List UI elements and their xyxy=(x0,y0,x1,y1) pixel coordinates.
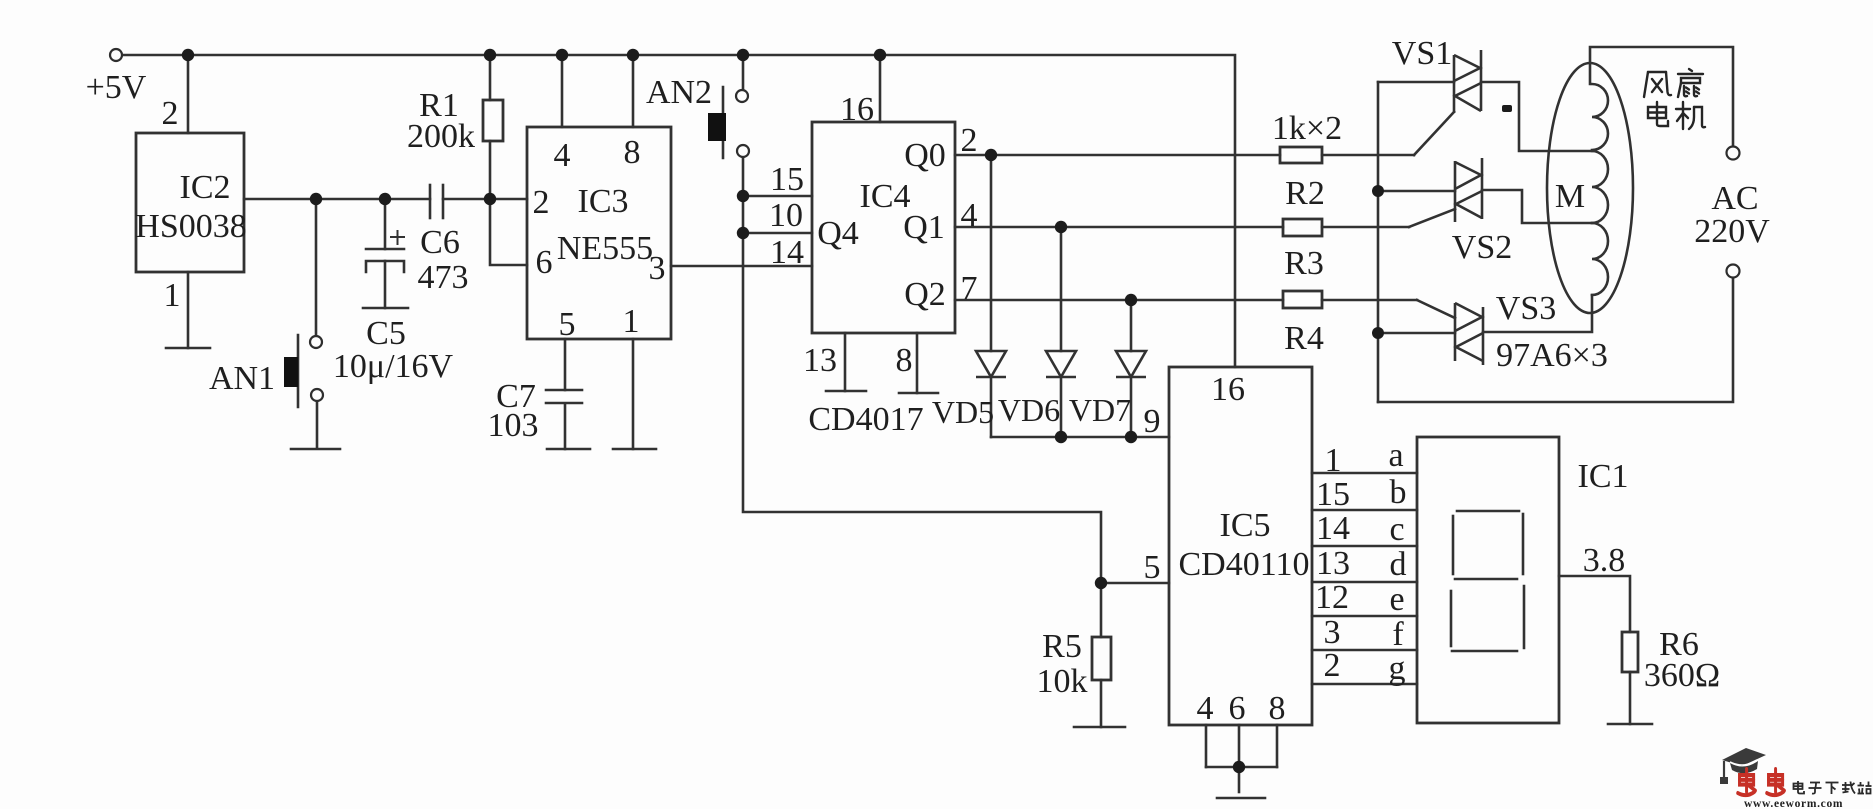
svg-text:8: 8 xyxy=(624,134,641,171)
svg-text:15: 15 xyxy=(1316,476,1350,513)
svg-text:VS1: VS1 xyxy=(1392,35,1452,72)
svg-text:15: 15 xyxy=(770,161,804,198)
svg-text:R5: R5 xyxy=(1042,628,1082,665)
svg-text:g: g xyxy=(1389,650,1406,687)
svg-text:R3: R3 xyxy=(1284,245,1324,282)
svg-text:Q1: Q1 xyxy=(903,209,945,246)
svg-text:3.8: 3.8 xyxy=(1583,542,1626,579)
svg-text:360Ω: 360Ω xyxy=(1644,657,1720,694)
svg-text:220V: 220V xyxy=(1694,213,1770,250)
svg-text:M: M xyxy=(1555,178,1585,215)
svg-text:4: 4 xyxy=(1197,690,1214,727)
svg-text:7: 7 xyxy=(961,270,978,307)
svg-text:103: 103 xyxy=(488,407,539,444)
svg-text:VD7: VD7 xyxy=(1069,392,1131,428)
svg-text:5: 5 xyxy=(559,306,576,343)
svg-text:1: 1 xyxy=(1325,442,1342,479)
svg-text:C5: C5 xyxy=(366,315,406,352)
svg-text:14: 14 xyxy=(1316,510,1350,547)
svg-text:Q2: Q2 xyxy=(904,276,946,313)
svg-text:VS2: VS2 xyxy=(1452,229,1512,266)
svg-text:14: 14 xyxy=(770,234,804,271)
svg-text:8: 8 xyxy=(896,342,913,379)
svg-text:CD40110: CD40110 xyxy=(1179,546,1310,583)
svg-text:IC3: IC3 xyxy=(578,183,629,220)
svg-text:10: 10 xyxy=(769,197,803,234)
svg-text:6: 6 xyxy=(536,244,553,281)
svg-text:13: 13 xyxy=(803,342,837,379)
svg-text:HS0038: HS0038 xyxy=(135,208,246,245)
svg-text:13: 13 xyxy=(1316,545,1350,582)
svg-text:AC: AC xyxy=(1711,180,1758,217)
svg-text:e: e xyxy=(1389,581,1404,618)
svg-text:IC1: IC1 xyxy=(1578,458,1629,495)
svg-text:16: 16 xyxy=(840,91,874,128)
svg-text:Q4: Q4 xyxy=(817,215,859,252)
svg-text:200k: 200k xyxy=(407,118,475,155)
svg-text:10μ/16V: 10μ/16V xyxy=(333,348,454,385)
svg-text:10k: 10k xyxy=(1037,663,1088,700)
svg-text:8: 8 xyxy=(1269,690,1286,727)
svg-text:1: 1 xyxy=(164,277,181,314)
svg-text:2: 2 xyxy=(162,95,179,132)
svg-text:4: 4 xyxy=(554,137,571,174)
svg-text:2: 2 xyxy=(533,184,550,221)
svg-text:AN2: AN2 xyxy=(646,74,712,111)
svg-text:2: 2 xyxy=(961,122,978,159)
svg-text:3: 3 xyxy=(649,250,666,287)
svg-text:NE555: NE555 xyxy=(557,230,653,267)
svg-text:R2: R2 xyxy=(1285,175,1325,212)
svg-text:R4: R4 xyxy=(1284,320,1324,357)
svg-text:CD4017: CD4017 xyxy=(808,401,923,438)
svg-text:f: f xyxy=(1392,616,1404,653)
svg-text:IC2: IC2 xyxy=(180,169,231,206)
svg-text:1k×2: 1k×2 xyxy=(1272,110,1342,147)
svg-text:VD5: VD5 xyxy=(932,394,994,430)
svg-text:+5V: +5V xyxy=(86,69,147,106)
svg-text:9: 9 xyxy=(1144,403,1161,440)
svg-text:6: 6 xyxy=(1229,690,1246,727)
svg-text:4: 4 xyxy=(961,197,978,234)
svg-text:VS3: VS3 xyxy=(1496,290,1556,327)
svg-text:c: c xyxy=(1389,511,1404,548)
svg-text:2: 2 xyxy=(1324,647,1341,684)
svg-text:12: 12 xyxy=(1315,579,1349,616)
svg-text:473: 473 xyxy=(418,259,469,296)
svg-text:IC5: IC5 xyxy=(1220,507,1271,544)
svg-text:VD6: VD6 xyxy=(998,392,1060,428)
svg-text:16: 16 xyxy=(1211,371,1245,408)
svg-text:AN1: AN1 xyxy=(209,360,275,397)
svg-text:5: 5 xyxy=(1144,549,1161,586)
svg-text:3: 3 xyxy=(1324,614,1341,651)
svg-text:b: b xyxy=(1390,474,1407,511)
svg-text:Q0: Q0 xyxy=(904,137,946,174)
svg-text:C6: C6 xyxy=(420,224,460,261)
svg-text:a: a xyxy=(1388,437,1403,474)
svg-text:d: d xyxy=(1390,546,1407,583)
svg-text:www.eeworm.com: www.eeworm.com xyxy=(1744,798,1843,809)
svg-text:97A6×3: 97A6×3 xyxy=(1496,337,1608,374)
svg-text:1: 1 xyxy=(623,303,640,340)
